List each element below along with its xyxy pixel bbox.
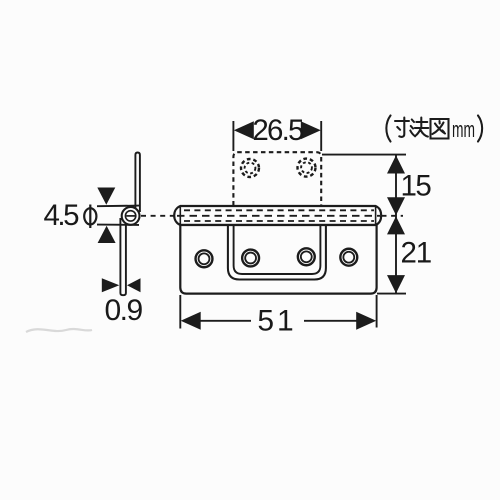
top view: folded flap (hidden/dashed outline) bbox=[233, 152, 321, 205]
dim 4.5 extension line bottom bbox=[97, 224, 139, 226]
dim 26.5 arrow left bbox=[234, 121, 254, 139]
main leaf plate bbox=[180, 225, 376, 294]
dim 51 extension line left bbox=[179, 295, 181, 329]
barrel centerline dashes (left, to pivot) bbox=[141, 215, 175, 217]
dim 4.5 extension line top bbox=[97, 205, 139, 208]
svg-text:26.5: 26.5 bbox=[252, 114, 304, 147]
dim 51 line left segment bbox=[198, 320, 251, 322]
dim 15/21 vertical line bbox=[395, 155, 397, 293]
dim 51 line right segment bbox=[304, 320, 359, 322]
screw hole 4 bbox=[340, 249, 357, 266]
barrel hatch row middle bbox=[177, 215, 380, 217]
svg-text:51: 51 bbox=[257, 305, 296, 338]
paren right bbox=[478, 116, 482, 142]
pivot knuckle circle bbox=[122, 207, 140, 225]
hinge barrel (knuckle) bbox=[174, 206, 381, 225]
stamped rib outer outline bbox=[228, 226, 326, 280]
dim 26.5 extension line left bbox=[232, 121, 234, 151]
svg-text:0.9: 0.9 bbox=[105, 294, 143, 327]
dim 4.5 arrow up bbox=[98, 226, 116, 243]
dim 15/21 top extension line bbox=[322, 154, 406, 156]
dim text 21 bbox=[401, 237, 431, 270]
dim 51 arrow right bbox=[356, 312, 376, 330]
barrel centerline dashes (right, to dim line) bbox=[382, 215, 404, 217]
svg-text:mm: mm bbox=[452, 117, 475, 142]
barrel hatch row bottom bbox=[184, 220, 374, 222]
dim text 15 bbox=[401, 170, 432, 203]
svg-text:4.5: 4.5 bbox=[44, 199, 80, 232]
phi symbol bbox=[84, 205, 96, 229]
dim 15/21 bottom extension line bbox=[377, 293, 406, 295]
dim 0.9 arrow right-pointing bbox=[102, 278, 120, 292]
barrel hatch row top bbox=[184, 209, 374, 211]
dim 26.5 arrow right bbox=[301, 121, 321, 139]
dim 15 arrow bottom (bowtie upper) bbox=[387, 197, 405, 215]
dim text 51 bbox=[257, 305, 296, 338]
faint pencil smudge bottom-left bbox=[26, 329, 92, 332]
svg-text:15: 15 bbox=[401, 170, 432, 203]
screw hole 2 bbox=[242, 250, 259, 267]
dim 0.9 arrow left-pointing bbox=[127, 278, 141, 292]
dim 21 arrow top (bowtie lower) bbox=[387, 216, 405, 234]
dim 15 arrow top bbox=[387, 155, 405, 173]
kanji 寸 bbox=[395, 118, 409, 137]
flap hole right (hidden) bbox=[298, 159, 316, 177]
paren left bbox=[386, 116, 390, 142]
dim 51 arrow left bbox=[181, 312, 201, 330]
dim text 4.5 bbox=[44, 199, 80, 232]
side view lower leaf bbox=[120, 219, 126, 295]
title text mm bbox=[452, 117, 475, 142]
title text (寸法図 mm) bbox=[386, 116, 482, 142]
side view upper leaf bbox=[135, 153, 140, 213]
dim 26.5 extension line right bbox=[320, 121, 322, 151]
screw hole 1 bbox=[196, 250, 213, 267]
stamped rib inner outline bbox=[234, 226, 321, 274]
dim 4.5 arrow down bbox=[97, 188, 115, 205]
dim text 0.9 bbox=[105, 294, 143, 327]
screw hole 3 bbox=[298, 248, 315, 265]
kanji 法 bbox=[410, 118, 428, 137]
dim 51 extension line right bbox=[376, 295, 378, 328]
kanji 図 bbox=[431, 119, 449, 139]
dim 21 arrow bottom bbox=[387, 275, 405, 293]
flap hole left (hidden) bbox=[241, 159, 259, 177]
svg-text:21: 21 bbox=[401, 237, 431, 270]
dim text 26.5 bbox=[252, 114, 304, 147]
